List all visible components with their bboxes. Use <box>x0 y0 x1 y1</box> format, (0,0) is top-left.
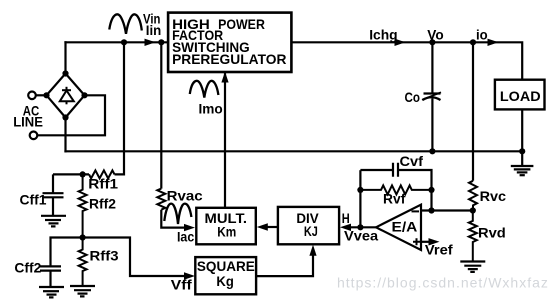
svg-text:KJ: KJ <box>304 223 318 239</box>
svg-text:Rvf: Rvf <box>383 190 406 206</box>
node divider junction <box>470 207 476 213</box>
arrowhead Imo into preregulator <box>221 72 228 83</box>
wire top output of bridge to preregulator <box>66 41 169 43</box>
svg-text:Vo: Vo <box>427 27 443 43</box>
node feedback right <box>428 207 434 213</box>
op-amp E/A <box>376 205 421 250</box>
svg-text:Rvc: Rvc <box>480 188 507 204</box>
capacitor Co branch wire upper <box>431 42 433 93</box>
capacitor Cff1 branch <box>52 174 54 193</box>
node Co at rail <box>429 148 435 154</box>
wire Vff to squarer <box>83 238 186 277</box>
svg-text:Iac: Iac <box>177 229 194 245</box>
op-amp plus sign <box>413 238 420 245</box>
resistor Rvf <box>360 185 431 194</box>
wire io sense down to Rvc <box>472 42 474 181</box>
ground Cff1 <box>41 216 66 227</box>
node dot top wire Rvac tap <box>158 39 164 45</box>
svg-text:Rff1: Rff1 <box>88 175 118 191</box>
svg-text:E/A: E/A <box>392 218 418 234</box>
svg-text:Km: Km <box>217 223 236 239</box>
arrowhead Iac into multiplier <box>184 224 195 231</box>
svg-text:POWER: POWER <box>218 16 265 32</box>
svg-text:Iin: Iin <box>146 22 162 38</box>
capacitor Cvf left lead <box>360 169 393 171</box>
node dot bridge top vertex <box>62 70 68 76</box>
wire feedback left riser <box>359 170 361 227</box>
wire squarer output to divider <box>256 253 313 276</box>
op-amp minus sign <box>412 210 420 212</box>
wire load bottom to ground rail <box>521 109 523 151</box>
arrowhead io <box>488 39 499 46</box>
node load bottom at rail <box>519 148 525 154</box>
capacitor Co slash <box>422 92 441 100</box>
svg-text:Co: Co <box>405 89 421 105</box>
svg-text:PREREGULATOR: PREREGULATOR <box>172 51 286 67</box>
wire error amp output to divider H input <box>349 226 376 228</box>
waveform Vin rectified sine <box>109 14 142 34</box>
svg-text:Imo: Imo <box>199 101 223 117</box>
svg-text:Vref: Vref <box>425 242 453 258</box>
block high power factor switching preregulator <box>168 13 291 72</box>
svg-text:LOAD: LOAD <box>500 88 541 104</box>
ground Rvd <box>460 262 485 272</box>
svg-text:Vff: Vff <box>171 277 192 293</box>
block multiplier MULT Km <box>196 208 256 245</box>
svg-text:Rff2: Rff2 <box>89 196 116 212</box>
node dot bridge right vertex <box>81 92 87 98</box>
block squarer SQUARE Kg <box>195 257 256 294</box>
node dot top wire Rff tap <box>121 39 127 45</box>
svg-text:H: H <box>342 210 350 226</box>
arrowhead Vref <box>429 238 440 245</box>
terminal AC line top <box>28 92 36 100</box>
bridge rectifier diode symbol <box>60 87 74 105</box>
capacitor Cvf plates <box>393 163 398 177</box>
svg-text:Rvd: Rvd <box>478 225 506 241</box>
svg-text:io: io <box>476 27 488 43</box>
node feedback right at Rvf <box>428 187 434 193</box>
node dot bridge left vertex <box>43 92 49 98</box>
arrowhead Ichg <box>395 39 406 46</box>
node Vvea <box>357 224 363 230</box>
wire Rvac tap down <box>160 42 162 188</box>
waveform Iac <box>164 204 191 224</box>
capacitor Cff1 stub <box>52 197 54 215</box>
svg-text:LINE: LINE <box>13 113 43 129</box>
wire inverting input to divider junction <box>421 209 473 211</box>
terminal AC line bottom <box>30 132 38 140</box>
resistor Rff1 <box>89 170 115 178</box>
resistor Rff3 <box>79 238 87 286</box>
svg-text:Vvea: Vvea <box>344 228 378 244</box>
block LOAD <box>495 80 545 110</box>
bridge rectifier BR1 diamond <box>47 74 85 118</box>
wire Vin tap down to Rff1 <box>115 42 125 174</box>
capacitor Co top plate <box>424 92 441 94</box>
node feedback left at Rvf <box>357 187 363 193</box>
resistor Rff2 <box>79 174 87 237</box>
resistor Rvc <box>469 181 477 211</box>
capacitor Cvf right lead <box>398 170 432 211</box>
svg-text:SQUARE: SQUARE <box>197 258 255 274</box>
arrowhead Iin on top wire <box>145 39 156 46</box>
capacitor Co branch wire lower <box>431 99 433 152</box>
waveform Imo <box>190 81 219 98</box>
arrowhead into divider bottom <box>309 245 316 256</box>
node Vo <box>429 39 435 45</box>
capacitor Co curved bottom plate <box>423 97 441 100</box>
svg-text:Rvac: Rvac <box>167 188 203 204</box>
svg-text:Ichg: Ichg <box>369 27 397 43</box>
capacitor Cff2 stub <box>49 271 51 287</box>
node dot bridge bottom vertex <box>62 114 68 120</box>
capacitor Cff2 branch <box>51 238 83 267</box>
wire divider to multiplier <box>267 226 278 228</box>
wire AC top terminal to bridge left vertex <box>36 94 47 96</box>
wire Imo multiplier output to preregulator <box>224 72 226 208</box>
wire preregulator output to load corner <box>291 42 522 79</box>
wire Rvac to multiplier Iac input <box>161 210 186 228</box>
svg-text:Cff2: Cff2 <box>14 260 41 276</box>
ground Rff3 <box>70 286 95 296</box>
capacitor Cff2 plates <box>40 265 61 267</box>
wire Rff1 to node <box>53 173 89 175</box>
node Rff1 Rff2 junction <box>80 171 86 177</box>
svg-text:Cff1: Cff1 <box>20 191 47 207</box>
svg-text:https://blog.csdn.net/Wxhxfaz: https://blog.csdn.net/Wxhxfaz <box>337 275 549 291</box>
wire bridge bottom vertex to rail <box>64 118 66 152</box>
node Rff2 bottom junction <box>80 234 86 240</box>
arrowhead into multiplier right edge <box>257 223 268 230</box>
ground right rail <box>511 151 534 175</box>
resistor Rvac <box>157 189 165 210</box>
svg-text:Cvf: Cvf <box>400 153 424 169</box>
svg-text:Kg: Kg <box>216 273 233 289</box>
capacitor Cff1 plates <box>43 192 64 194</box>
svg-text:Rff3: Rff3 <box>90 248 119 264</box>
resistor Rvd <box>469 211 477 262</box>
wire AC bottom terminal to bridge right vertex <box>37 95 105 135</box>
block divider DIV KJ <box>278 207 339 244</box>
wire bridge top vertex riser <box>64 42 66 73</box>
arrowhead Vff into squarer <box>184 272 195 279</box>
arrowhead into divider right edge <box>340 224 351 231</box>
wire Vref into noninverting input <box>421 241 430 243</box>
ground Cff2 <box>39 287 64 297</box>
node io <box>470 39 476 45</box>
ground rail <box>66 150 523 152</box>
